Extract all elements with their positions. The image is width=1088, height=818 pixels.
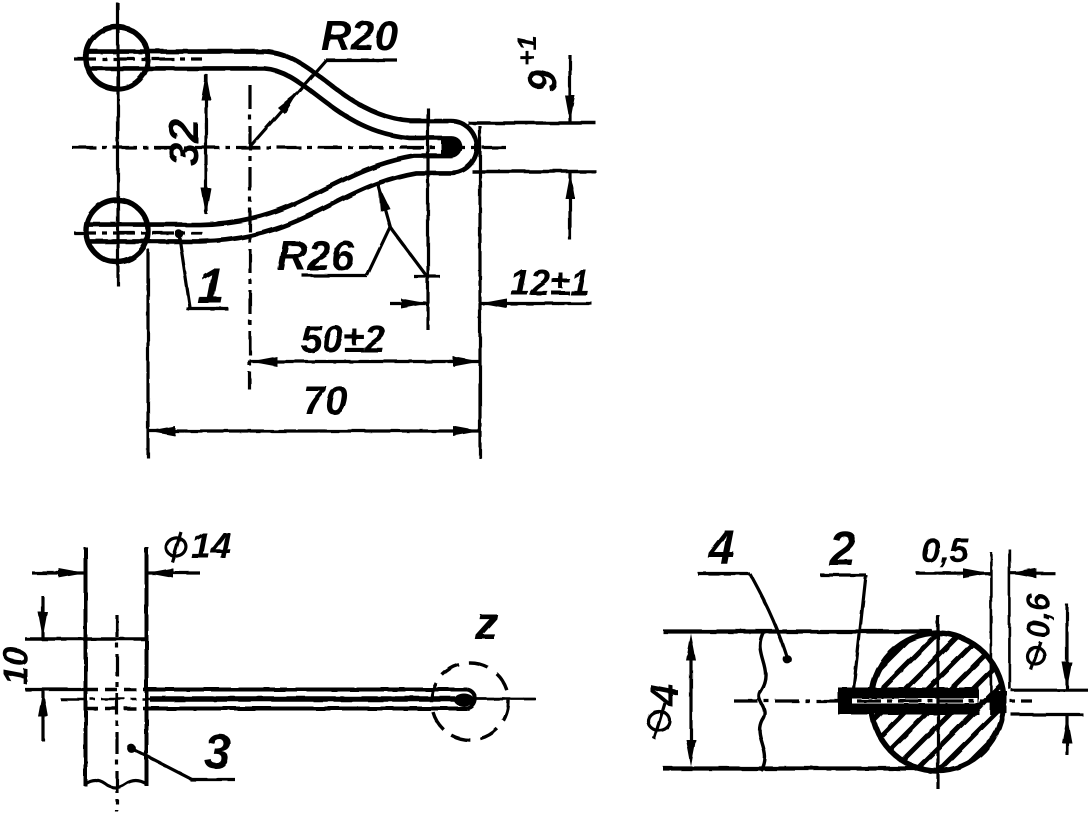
bushing bottom break line xyxy=(86,781,147,788)
extension line for 70 (left) xyxy=(146,249,149,458)
rod horizontal axis xyxy=(60,698,536,701)
svg-text:2: 2 xyxy=(828,523,856,576)
svg-text:R20: R20 xyxy=(321,12,398,59)
dimension 9+1 xyxy=(568,55,571,123)
phi14 text xyxy=(164,525,231,566)
svg-text:0,5: 0,5 xyxy=(921,532,969,570)
R20 leader xyxy=(250,60,326,147)
bushing vertical axis xyxy=(115,615,118,812)
R26 leader xyxy=(302,274,367,277)
ball hatching xyxy=(758,535,1088,790)
svg-text:1: 1 xyxy=(197,258,225,314)
centerline top loop xyxy=(74,57,202,60)
item label 3 xyxy=(127,744,136,753)
dimension phi4 xyxy=(689,648,692,752)
main fork axis centerline xyxy=(72,146,512,149)
svg-text:R26: R26 xyxy=(277,232,355,279)
dimension 70 xyxy=(148,429,480,432)
svg-text:z: z xyxy=(474,597,498,649)
dimension 50±2 xyxy=(250,360,480,363)
dimension phi14 xyxy=(32,571,86,574)
bushing left side xyxy=(84,547,88,786)
svg-text:32: 32 xyxy=(160,119,207,166)
dimension 10 xyxy=(41,596,44,639)
axis of detail xyxy=(734,699,1032,702)
svg-text:0,6: 0,6 xyxy=(1020,593,1056,638)
tube bottom line xyxy=(663,766,924,770)
loop circle bottom xyxy=(86,200,148,262)
extension line for 12 (left) xyxy=(426,108,429,330)
break squiggle xyxy=(759,631,766,771)
svg-text:4: 4 xyxy=(707,522,735,575)
svg-text:9: 9 xyxy=(521,69,565,92)
axis solid stub through detail circle xyxy=(477,698,536,701)
svg-text:4: 4 xyxy=(643,684,687,707)
svg-text:14: 14 xyxy=(191,525,231,566)
svg-text:50±2: 50±2 xyxy=(301,319,385,361)
svg-text:3: 3 xyxy=(204,726,231,779)
rod rounded tip xyxy=(467,690,475,709)
wire (item 2) through ball xyxy=(838,688,979,715)
rod bottom edge xyxy=(86,707,148,710)
slot end fill at fork tip xyxy=(441,137,461,155)
dimension phi0,6 extension lines xyxy=(1011,689,1088,692)
bushing right side xyxy=(145,547,149,786)
centerline bottom loop xyxy=(74,231,202,234)
ball vertical centerline xyxy=(936,615,939,789)
svg-text:70: 70 xyxy=(303,379,348,423)
dimension 0,5 extension lines xyxy=(990,552,993,715)
dimension 9+1 extension lines xyxy=(468,121,596,124)
rod inner wire line xyxy=(150,696,455,702)
extension line right (fork tip) xyxy=(478,126,481,458)
detail z circle xyxy=(432,663,509,740)
bushing top edge + extension for 10 xyxy=(25,637,147,641)
rod top edge (hidden in bushing dashed) xyxy=(86,688,148,691)
dimension 12±1 xyxy=(390,302,428,305)
svg-text:+1: +1 xyxy=(512,35,542,66)
svg-text:12±1: 12±1 xyxy=(510,262,590,303)
dimension phi0,6 xyxy=(1065,604,1068,689)
rod tip wire blob xyxy=(454,694,474,707)
dimension 32 xyxy=(204,74,207,214)
item label 1 xyxy=(175,230,183,238)
svg-text:10: 10 xyxy=(0,647,35,685)
dimension 0,5 xyxy=(916,572,990,575)
wire fork outline xyxy=(86,60,468,233)
loop circle top xyxy=(86,27,148,89)
tube top line xyxy=(663,629,932,633)
vertical centerline through loops xyxy=(116,3,119,286)
extension line for 50 (left, dash-dot) xyxy=(248,85,251,390)
ball outline xyxy=(871,633,1004,771)
